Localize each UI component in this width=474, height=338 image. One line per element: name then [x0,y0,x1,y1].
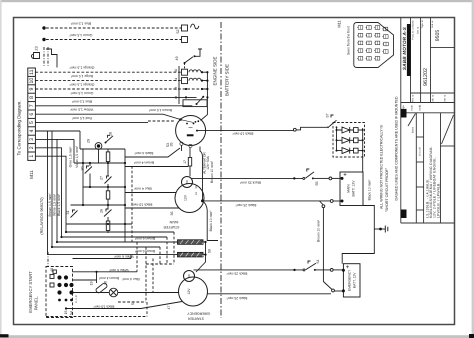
wire alternator ground drop [200,147,218,241]
component 29 [95,143,102,150]
svg-text:20: 20 [103,281,107,285]
MAIN BATTERY [340,172,388,264]
wire green 1,5 (pin8) [35,96,196,98]
black10 panel wire [66,302,182,309]
wire alternator B+ to diodes [197,127,327,130]
svg-text:BATT. 12V: BATT. 12V [352,272,356,288]
svg-text:50: 50 [174,69,178,73]
svg-text:31: 31 [66,211,70,215]
relay terminal numbers 50 41 43 44 [174,69,178,100]
wire pin stub [181,145,183,151]
connector outline [354,23,394,68]
svg-text:3: 3 [29,138,35,141]
wire brown 4 [125,166,188,168]
svg-text:Yellow 1,5 mm²: Yellow 1,5 mm² [70,108,94,112]
svg-text:Prosj. nr. 19.BLAD: Prosj. nr. 19.BLAD [412,20,415,39]
svg-text:Tegn.: Tegn. [402,104,405,110]
dashed drops to panel [131,166,133,242]
svg-text:Blue 1,5 mm²: Blue 1,5 mm² [71,99,92,103]
svg-text:Det. nr.: Det. nr. [417,26,420,34]
svg-text:55: 55 [315,182,319,186]
svg-text:M11: M11 [29,170,34,179]
svg-text:47: 47 [167,306,171,310]
svg-text:29: 29 [86,139,90,143]
switch 26 [104,209,112,217]
scan mark bottom-right [469,334,474,338]
panel dashed outline [46,267,73,318]
component 52 plug [182,25,188,31]
wire red 1,5 (pin5) [35,122,148,124]
svg-text:Grey 1,5 mm²: Grey 1,5 mm² [69,146,73,168]
diode 2 [337,137,354,143]
svg-text:TRONDHEIM - NORWAY: TRONDHEIM - NORWAY [408,35,411,62]
svg-text:19: 19 [89,282,93,286]
svg-text:Brown 10 mm²: Brown 10 mm² [317,219,321,242]
junction dots cluster [82,162,84,164]
svg-text:Brown 1,5 mm²: Brown 1,5 mm² [148,108,172,112]
svg-text:MAIN: MAIN [347,184,351,193]
svg-text:Brown 1,5 mm²: Brown 1,5 mm² [48,193,52,217]
svg-text:7: 7 [29,104,35,107]
page edge shading top [0,0,474,2]
drawing title lines [425,146,440,218]
switch 57 [329,115,337,127]
svg-text:Black 10 mm²: Black 10 mm² [209,210,213,232]
diode output bus [362,128,364,172]
svg-text:Orange 1,5 mm²: Orange 1,5 mm² [69,83,95,87]
svg-text:Black 1,5 mm²: Black 1,5 mm² [57,193,61,216]
svg-text:White 6 mm²: White 6 mm² [109,268,129,272]
wire emerg solenoid to switch 54 [194,269,303,271]
labels cluster [66,132,170,215]
vertical x108 fuse chain [107,149,109,152]
page edge shading right [472,0,474,338]
svg-text:23: 23 [35,46,39,50]
svg-text:Orange 1,5 mm²: Orange 1,5 mm² [69,66,95,70]
resistor 19 feed [96,272,98,283]
diode input bus [336,127,338,150]
page edge shading left [0,0,2,338]
diode bus to battery top [362,171,364,173]
svg-text:12V: 12V [183,194,187,201]
switch 55 [303,177,305,179]
svg-text:Blue 4 mm²: Blue 4 mm² [133,187,151,191]
TITLE BLOCK [401,18,455,224]
relay coil B (pin 10 circuit) [182,78,188,84]
battery side divider (dash-dot) [220,22,222,318]
coil resistor 1 [178,240,204,245]
wire labels (upside-down) top harness [69,21,95,120]
svg-text:Black 10 mm²: Black 10 mm² [93,305,115,309]
svg-text:Ant. nr.: Ant. nr. [444,94,447,102]
vertical wire labels left drops [48,145,79,216]
svg-text:1: 1 [29,155,35,158]
wire emerg starter minus [207,293,331,295]
GLOW RELAY COILS [57,240,207,272]
panel wires out [73,255,132,259]
wire glow 1 [57,241,178,243]
wire dashed green 1,5 [46,39,182,41]
wire glow out [196,242,206,272]
wire pin1 drop [35,156,174,232]
connector strip M11 boxes 1-11 [28,68,36,160]
wire black 10 [125,207,180,209]
coil output stubs [202,72,207,89]
svg-text:Brown 4 mm²: Brown 4 mm² [98,276,119,280]
svg-text:DASHED LINES AND COMPONENTS: DASHED LINES AND COMPONENTS ARE USED IF … [394,95,398,200]
bus top y149 [80,148,125,150]
left rail of relay contacts [178,66,180,104]
svg-text:10: 10 [29,78,35,84]
svg-text:LPW3LB. / LPW4LB.: LPW3LB. / LPW4LB. [436,182,440,218]
switch 54 [303,269,305,271]
svg-text:Black 10 mm²: Black 10 mm² [131,202,153,206]
svg-text:Seen from the front: Seen from the front [347,26,351,55]
svg-text:Brown 10 mm²: Brown 10 mm² [210,160,214,183]
component 52 horn squiggle [191,24,199,29]
vertical x90 [89,163,91,166]
svg-text:(RELAYBOX 969170): (RELAYBOX 969170) [39,197,44,235]
junction dots bus [201,71,203,73]
bus y224 [66,223,132,225]
svg-text:43: 43 [174,87,178,91]
svg-text:8: 8 [29,96,35,99]
svg-text:Black 4 mm²: Black 4 mm² [134,151,154,155]
svg-text:ENGINE SIDE: ENGINE SIDE [212,56,217,85]
svg-text:52: 52 [176,30,180,34]
svg-text:ALL WIRING NOT PROTECTED E: ALL WIRING NOT PROTECTED ELECTRICALLY IS [379,124,383,209]
svg-text:41: 41 [174,78,178,82]
switch 30 [85,166,92,174]
svg-text:4: 4 [29,129,35,132]
svg-text:50: 50 [207,249,211,253]
svg-text:PANEL.: PANEL. [34,296,39,311]
vertical x125 [124,149,126,242]
vertical x98.5 with horn 29 [98,149,100,163]
lamp wires [73,292,179,294]
wire pin2 drop [35,148,167,237]
wire staircase into strip [46,49,57,68]
emergency feed vertical (brown 10) [323,208,332,290]
scan mark bottom-left [0,334,9,337]
wire black 4 [125,148,180,157]
relay output bus [201,72,208,120]
svg-text:5: 5 [29,121,35,124]
wire blue 1,5 (pin7) [35,105,192,107]
EMERGENCY START PANEL BLOCK [46,166,182,318]
svg-text:Violet 1,5 mm²: Violet 1,5 mm² [75,145,79,168]
resistor 19 (tilted) [95,282,108,293]
page edge shading bottom [0,335,474,338]
svg-text:11: 11 [29,69,35,74]
svg-text:57: 57 [325,114,329,118]
svg-text:Blue 4 mm²: Blue 4 mm² [121,277,139,281]
svg-text:EMERGENCY START: EMERGENCY START [28,271,33,313]
node dot blue wire [42,26,45,29]
svg-text:35: 35 [169,143,173,147]
svg-text:Tegn. nr.: Tegn. nr. [421,19,424,28]
svg-text:51: 51 [131,301,135,305]
wire orange 1,5 (pin9) [35,88,203,90]
svg-text:9505: 9505 [435,30,441,42]
svg-text:Green 1,5 mm²: Green 1,5 mm² [70,91,94,95]
svg-text:"SHORT CIRCUIT PROOF": "SHORT CIRCUIT PROOF" [385,167,389,212]
cluster output wires to engine units [125,148,188,208]
lamp 20 [109,288,118,297]
bus y187 [83,186,125,188]
svg-text:Black 25 mm²: Black 25 mm² [239,180,261,184]
RIGHT SIDE LONG WIRES [197,115,365,172]
RELAY / FUSE CLUSTER [51,135,132,248]
svg-text:BATT. 12V: BATT. 12V [351,180,355,197]
svg-text:EMERGENCY: EMERGENCY [348,269,352,291]
svg-text:MAIN: MAIN [169,220,178,224]
diode box dashed [333,123,365,158]
svg-text:36: 36 [170,212,174,216]
title block black cells [401,109,407,118]
svg-text:Green 1,5 mm²: Green 1,5 mm² [69,33,93,37]
labels output wires [131,151,154,207]
EMERGENCY BATTERY [342,264,360,297]
coil resistor 2 [178,252,204,257]
wire glow 2 [131,254,178,256]
svg-text:Black 10 mm²: Black 10 mm² [232,131,254,135]
svg-text:54: 54 [316,260,320,264]
switch contact (row 8) [197,97,204,104]
svg-text:6, 1, 8: 6, 1, 8 [75,295,78,303]
vertical x83 [82,149,84,205]
svg-text:STARTER: STARTER [163,225,179,229]
svg-text:Black 25 mm²: Black 25 mm² [226,296,248,300]
ALTERNATOR U35 [176,116,206,148]
svg-text:31: 31 [195,192,198,195]
svg-text:17: 17 [183,160,187,164]
svg-text:Sek. nr.: Sek. nr. [431,20,434,28]
svg-text:Black 10 mm²: Black 10 mm² [368,179,372,201]
svg-text:Ark. nr.: Ark. nr. [432,94,435,102]
relay coil A (pin 11 circuit) [182,69,188,75]
EMERGENCY STARTER U47 [179,271,208,307]
svg-text:SABB MOTOR A-S: SABB MOTOR A-S [402,26,407,70]
svg-text:STARTER: STARTER [188,316,204,320]
svg-text:Blue 1,5 mm²: Blue 1,5 mm² [70,21,91,25]
switch 31 [71,210,78,218]
svg-text:Enhet: Enhet [412,127,415,133]
wire beige 1,5 (pin10) [35,80,181,82]
svg-text:961202: 961202 [423,68,429,86]
connector strip pin numbers [29,69,35,157]
svg-text:BATTERY SIDE: BATTERY SIDE [225,64,230,96]
svg-text:15: 15 [64,311,68,315]
EMERGENCY WIRES [194,261,344,294]
title block small texts [402,19,447,156]
svg-text:49: 49 [175,57,179,61]
svg-text:Red 1,5 mm²: Red 1,5 mm² [71,116,91,120]
wire solenoid to main battery [191,177,303,179]
svg-text:Brown 4 mm²: Brown 4 mm² [133,161,154,165]
svg-text:28: 28 [108,132,112,136]
wire pin4 drop [35,131,160,255]
svg-text:27: 27 [99,176,103,180]
svg-text:54: 54 [69,311,73,315]
svg-text:Kontr.: Kontr. [411,104,414,110]
diode 1 [337,127,354,133]
svg-text:12V: 12V [187,288,191,295]
svg-text:Godkj.: Godkj. [419,104,422,111]
svg-text:To Corresponding Diagram.: To Corresponding Diagram. [17,100,22,155]
svg-text:White 6 mm²: White 6 mm² [114,255,134,259]
svg-text:Res. nr.: Res. nr. [412,94,415,102]
ground symbol [374,228,385,230]
svg-text:50: 50 [185,180,189,184]
svg-text:6: 6 [29,113,35,116]
wire pin3 drop [35,139,74,242]
switch 49 [185,49,203,63]
svg-text:48: 48 [50,268,54,272]
svg-text:M11: M11 [337,19,342,27]
wire yellow 1,5 (pin6) [35,114,180,119]
crossed-out cell slashes [442,115,454,144]
tap circle for emergency feed [320,201,323,205]
svg-text:2: 2 [29,146,35,149]
panel connector dots [57,275,73,301]
wire dash-dot drops below 23 [43,47,45,67]
svg-text:26: 26 [99,209,103,213]
diode 3 [337,148,354,154]
regulator box [183,100,207,107]
wire blue 4 [125,192,176,194]
bus y205 [71,204,126,206]
svg-text:30.01.95.: 30.01.95. [419,146,422,156]
MAIN STARTER U36 [175,177,204,213]
svg-text:9: 9 [29,87,35,90]
svg-text:50: 50 [187,274,191,278]
wire dashed blue 1,5 (top) [46,27,182,29]
svg-text:White 1,5 mm²: White 1,5 mm² [53,193,57,216]
bus y163 [74,162,125,164]
svg-text:44: 44 [174,96,178,100]
switch 27 [105,176,112,184]
svg-text:Black 25 mm²: Black 25 mm² [226,272,248,276]
svg-text:EMERGENCY: EMERGENCY [187,311,210,315]
svg-text:Brown 6 mm²: Brown 6 mm² [134,236,155,240]
battery minus run to emergency battery [342,206,374,264]
switch 28 [106,135,114,142]
component 23 buzzer [31,53,39,59]
fuse 17 [182,145,219,240]
svg-text:Black 25 mm²: Black 25 mm² [235,203,257,207]
svg-text:Beige 1,5 mm²: Beige 1,5 mm² [70,74,93,78]
connector pins grid [357,26,363,30]
wire orange 1,5 (pin11) [35,71,181,73]
svg-text:30: 30 [80,167,84,171]
wire starter minus to battery [203,200,331,202]
node dot green wire [42,38,45,41]
